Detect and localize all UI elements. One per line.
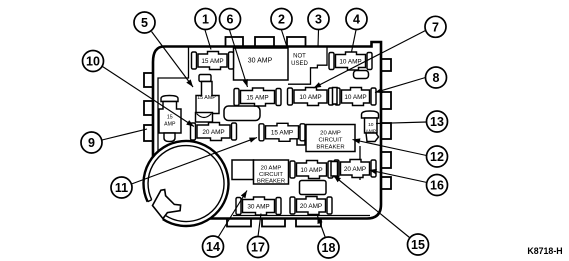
leader line 12 (353, 140, 427, 156)
leader line 6 (230, 30, 248, 87)
circuit breaker 20A upper (297, 127, 305, 145)
fuse 15A row1 left (192, 52, 234, 70)
svg-text:10: 10 (368, 122, 374, 128)
fuse 20A row3 left (191, 123, 237, 141)
callout 17 (248, 237, 269, 258)
svg-text:15: 15 (411, 238, 425, 252)
junction bar row2 (333, 88, 338, 105)
svg-text:20 AMP: 20 AMP (261, 166, 282, 172)
svg-text:BREAKER: BREAKER (316, 145, 344, 151)
vertical fuse 15A (col left-center) (196, 75, 220, 123)
callout 1 (195, 9, 216, 30)
leader line 17 (258, 214, 261, 237)
callout 18 (318, 237, 339, 258)
leader line 8 (375, 78, 426, 93)
steering column ring (144, 141, 229, 226)
fuse 15A row2 center (234, 88, 281, 106)
svg-text:15 AMP: 15 AMP (201, 58, 223, 65)
svg-text:17: 17 (251, 241, 265, 255)
svg-text:15 AMP: 15 AMP (197, 95, 216, 101)
svg-text:15: 15 (167, 115, 173, 121)
callout 8 (426, 67, 447, 88)
blank slot C (300, 181, 327, 195)
svg-text:AMP: AMP (164, 122, 176, 128)
leader line 11 (132, 138, 258, 185)
callout 5 (134, 12, 155, 33)
svg-text:7: 7 (432, 20, 439, 34)
fuse 10A row4 (290, 161, 333, 179)
svg-text:11: 11 (115, 181, 128, 195)
fuse 30A row5 (236, 197, 281, 215)
svg-text:K8718-H: K8718-H (527, 246, 562, 256)
svg-text:CIRCUIT: CIRCUIT (319, 138, 343, 144)
compartment divider right (359, 146, 361, 180)
svg-text:15 AMP: 15 AMP (246, 94, 268, 101)
svg-text:5: 5 (141, 16, 148, 30)
svg-text:USED: USED (291, 61, 308, 67)
fuse 10A row2 mid (288, 88, 334, 106)
leader line 13 (376, 122, 427, 124)
leader line 14 (218, 191, 247, 238)
inner margin line vertical (158, 48, 189, 159)
leader line 18 (318, 216, 326, 238)
svg-text:6: 6 (227, 13, 234, 27)
callout 3 (308, 9, 329, 30)
callout 14 (203, 236, 224, 257)
keyway (153, 190, 181, 219)
circuit breaker 20A lower (232, 160, 254, 180)
callout 10 (83, 51, 104, 72)
callout 16 (427, 175, 448, 196)
top mounting tabs (226, 37, 244, 47)
leader line 16 (369, 170, 427, 183)
svg-text:10 AMP: 10 AMP (300, 167, 322, 174)
svg-text:20 AMP: 20 AMP (300, 203, 322, 210)
blank slot A (224, 106, 260, 121)
svg-text:NOT: NOT (293, 54, 306, 60)
svg-text:3: 3 (315, 13, 322, 27)
leader line 9 (102, 129, 147, 140)
svg-text:30 AMP: 30 AMP (248, 58, 273, 65)
callout 11 (111, 177, 132, 198)
svg-text:8: 8 (433, 71, 440, 85)
leader line 15 (334, 176, 410, 238)
svg-text:CIRCUIT: CIRCUIT (259, 172, 283, 178)
callout 12 (427, 146, 448, 167)
svg-text:4: 4 (353, 13, 360, 27)
svg-text:14: 14 (206, 240, 220, 254)
svg-text:AMP: AMP (365, 129, 376, 135)
svg-text:BREAKER: BREAKER (257, 179, 285, 185)
svg-text:18: 18 (322, 241, 336, 255)
svg-text:16: 16 (430, 179, 444, 193)
junction bar row4 (331, 162, 338, 177)
callout 15 (408, 234, 429, 255)
svg-text:20 AMP: 20 AMP (320, 131, 341, 137)
fuse 10A row2 right (335, 88, 376, 106)
fuse 20A row4 right (334, 160, 376, 178)
leader line 10 (103, 67, 195, 127)
fuse panel outline (153, 42, 381, 219)
leader line 5 (152, 32, 194, 88)
svg-text:15 AMP: 15 AMP (271, 130, 293, 137)
fuse 20A row5 (290, 197, 332, 215)
svg-text:13: 13 (430, 115, 444, 129)
svg-text:10 AMP: 10 AMP (339, 58, 361, 65)
bottom mounting tabs (227, 218, 251, 227)
svg-text:1: 1 (202, 13, 209, 27)
callout 4 (346, 9, 367, 30)
leader line 1 (205, 30, 211, 50)
inner bottom line (233, 215, 370, 217)
svg-text:10 AMP: 10 AMP (299, 94, 321, 101)
svg-text:10 AMP: 10 AMP (344, 94, 366, 101)
callout 13 (427, 111, 448, 132)
svg-text:30 AMP: 30 AMP (247, 203, 269, 210)
blank slot B (354, 71, 369, 79)
leader line 7 (314, 31, 426, 89)
svg-text:9: 9 (88, 136, 95, 150)
callout 6 (220, 9, 241, 30)
svg-text:2: 2 (278, 13, 285, 27)
left mounting tabs (144, 73, 154, 87)
callout 7 (425, 16, 446, 37)
fuse 15A row3 (259, 123, 305, 141)
NOT USED slot (288, 48, 327, 85)
relay box 30 AMP (234, 48, 289, 80)
leader line 3 (317, 30, 320, 47)
callout 9 (81, 132, 102, 153)
right mounting tabs (381, 59, 392, 71)
svg-text:12: 12 (430, 150, 444, 164)
leader line 2 (282, 30, 288, 47)
callout 2 (271, 9, 292, 30)
svg-text:10: 10 (86, 55, 100, 69)
svg-text:20 AMP: 20 AMP (202, 129, 224, 136)
vertical fuse 10A (right edge) (362, 111, 379, 142)
vertical fuse 15A (far left) (159, 96, 181, 142)
leader line 4 (352, 30, 357, 52)
svg-text:20 AMP: 20 AMP (344, 166, 366, 173)
fuse 10A row1 right (329, 52, 372, 70)
